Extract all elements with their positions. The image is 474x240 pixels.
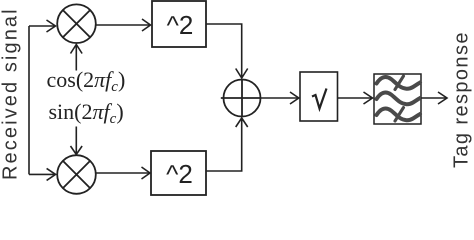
wire: cos arrow up into mixer M1 (75, 46, 77, 71)
arrowhead into bottom mixer (47, 168, 56, 180)
block: top squarer ^2 (152, 1, 206, 47)
wire: filter to output (421, 97, 446, 99)
svg-text:Received signal: Received signal (0, 7, 22, 180)
block: bottom squarer ^2 (151, 151, 206, 195)
mixer M2 (bottom multiplier circle) (57, 155, 96, 194)
wire: sqrt to filter block (338, 97, 372, 99)
svg-text:^2: ^2 (166, 159, 193, 189)
block: square root (300, 72, 338, 121)
wire: top squarer to summer (right then down) (206, 24, 242, 77)
wire: input trunk vertical (28, 26, 30, 174)
svg-text:cos(2πfc): cos(2πfc) (47, 67, 126, 95)
svg-text:^2: ^2 (167, 10, 194, 40)
svg-text:Tag response: Tag response (451, 31, 473, 168)
wire: sin arrow down into mixer M2 (75, 127, 77, 154)
wire: trunk to top mixer (29, 25, 55, 27)
wave top (377, 77, 421, 89)
arrowhead into top mixer (47, 20, 56, 32)
wire: mixer M1 to top squarer (96, 24, 150, 26)
wire: trunk to bottom mixer (29, 173, 55, 175)
slash over bottom wave (395, 108, 404, 122)
mixer M1 (top multiplier circle) (57, 4, 96, 43)
wave middle (377, 93, 421, 105)
block: band-pass filter (374, 74, 421, 124)
wire: summer to sqrt block (261, 97, 298, 99)
svg-text:sin(2πfc): sin(2πfc) (49, 99, 124, 127)
summer (adder circle with plus) (221, 80, 261, 117)
wave bottom (377, 109, 421, 121)
slash over top wave (395, 76, 404, 90)
wire: bottom squarer to summer (right then up) (206, 120, 242, 172)
wire: mixer M2 to bottom squarer (96, 172, 149, 174)
